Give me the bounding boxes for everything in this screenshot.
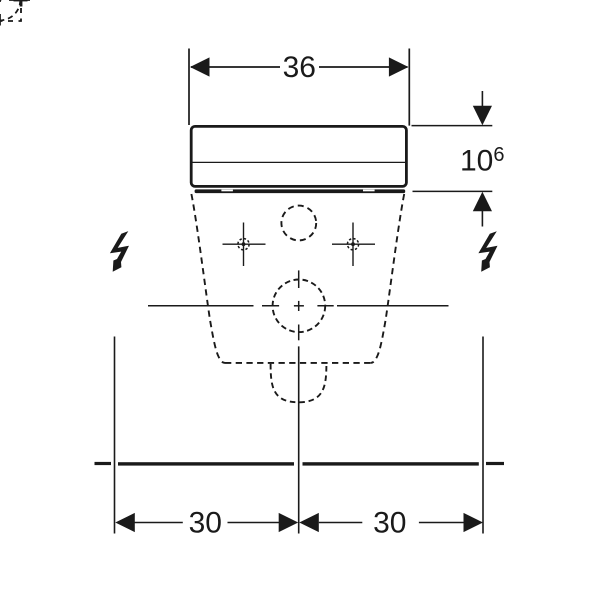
fixing hole left: dashed circle [238, 239, 249, 250]
seat hinge bar notch left (white) [221, 190, 233, 192]
electrical connection symbol left (dashed square + circle + crosshair) [0, 0, 30, 26]
toilet ceramic dashed outline: bottom edge [225, 362, 371, 364]
dimension 36: right extension line [408, 49, 410, 126]
floor line: main right segment [303, 462, 479, 465]
big circle center cross vertical [298, 301, 300, 311]
fixing hole right: dashed circle [347, 239, 358, 250]
horizontal axis: long line left symbol to toilet [148, 305, 254, 307]
floor line: main left segment [118, 462, 294, 465]
horizontal axis: dash right of big circle [317, 305, 333, 307]
dimension 36: dimension line right segment [319, 66, 408, 68]
dimension 36: left extension line [188, 49, 190, 126]
horizontal axis: long line toilet to right symbol [337, 305, 449, 307]
seat hinge bar (thick) [195, 189, 406, 193]
dimension 10: lower arrowhead (up) [473, 192, 492, 212]
right vertical extension line (symbol to bottom dimension) [482, 337, 484, 534]
water connection (big dashed circle) [273, 280, 326, 333]
symbol dashed square [0, 0, 21, 21]
dimension 30 left: right arrowhead [279, 513, 299, 532]
fixing hole right: center dot [351, 242, 355, 246]
floor line: left break segment [95, 462, 112, 465]
svg-text:30: 30 [373, 507, 406, 540]
dimension 30 left: line segment a [135, 522, 183, 524]
dimension 30 right: left arrowhead [299, 513, 319, 532]
dimension 30 right: line segment a [319, 522, 363, 524]
toilet ceramic dashed outline: left edge [191, 194, 225, 363]
dimension 10: upper arrow tail [481, 91, 483, 107]
electrical connection symbol right [0, 0, 30, 26]
center axis vertical: segment below big circle [298, 325, 300, 341]
center axis vertical: segment above big circle [298, 270, 300, 288]
fixing hole right: crosshair horizontal [332, 243, 375, 245]
lightning bolt left (power) [110, 231, 129, 272]
fixing hole left: crosshair horizontal [223, 243, 266, 245]
symbol bold cross mark on right edge [14, 0, 28, 1]
fixing hole right: crosshair vertical [352, 223, 354, 267]
symbol dashed circle [0, 0, 20, 20]
dimension 30 right: right arrowhead [464, 513, 484, 532]
cistern lid inner split line [190, 161, 407, 163]
dimension 10: lower arrow tail [481, 211, 483, 227]
svg-text:36: 36 [283, 51, 316, 84]
seat hinge bar notch right (white) [363, 190, 375, 192]
symbol dashed square [0, 0, 21, 21]
flush/supply hole (small dashed circle top center) [281, 206, 316, 241]
outlet U-shape dashed [271, 364, 327, 403]
dimension 36: right arrowhead [389, 57, 409, 76]
center axis vertical: long line to bottom dimension [298, 346, 300, 533]
dimension 10: lower extension line [413, 190, 493, 192]
fixing hole left: center dot [242, 242, 246, 246]
fixing hole left: crosshair vertical [243, 223, 245, 267]
dimension 30 left: left arrowhead [115, 513, 135, 532]
floor line: right break segment [486, 462, 504, 465]
horizontal axis: dash left of big circle [262, 305, 279, 307]
left vertical extension line (symbol to bottom dimension) [114, 337, 116, 534]
big circle center cross horizontal [294, 305, 304, 307]
dimension 10: upper extension line [412, 125, 493, 127]
lightning bolt right (power) [478, 231, 497, 272]
dimension 36: left arrowhead [190, 57, 210, 76]
symbol dashed circle [0, 0, 20, 20]
dimension 30 left: line segment b [228, 522, 280, 524]
toilet ceramic dashed outline: right edge [371, 194, 405, 363]
svg-text:30: 30 [189, 507, 222, 540]
symbol bold cross mark on right edge [14, 0, 28, 1]
dimension 10: upper arrowhead (down) [473, 106, 492, 126]
cistern lid (top rounded rectangle) [191, 126, 406, 186]
dimension 30 right: line segment b [419, 522, 464, 524]
dimension 36: dimension line left segment [191, 66, 280, 68]
svg-text:106: 106 [460, 144, 505, 178]
